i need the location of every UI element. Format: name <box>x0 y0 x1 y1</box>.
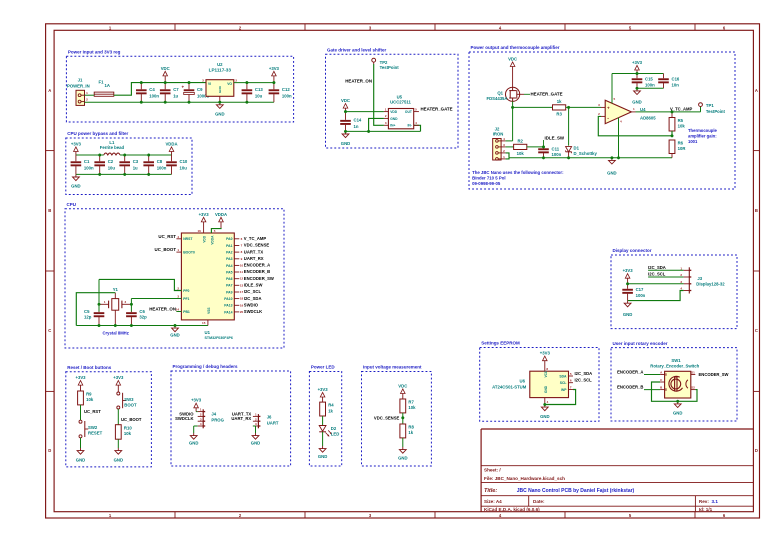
svg-text:GND: GND <box>76 457 85 462</box>
U1 pin 14 PB1 <box>149 307 190 314</box>
wire R8 to ground <box>402 438 404 447</box>
inductor L1 Ferrite bead <box>100 140 125 155</box>
svg-text:10u: 10u <box>108 166 116 171</box>
svg-text:1n: 1n <box>354 124 359 129</box>
svg-text:HEATER_GATE: HEATER_GATE <box>421 107 453 112</box>
svg-text:ENCODER_A: ENCODER_A <box>244 263 270 268</box>
svg-text:HEATER_ON: HEATER_ON <box>345 79 372 84</box>
wire bypass bottom rail <box>76 173 172 175</box>
svg-text:Settings EEPROM: Settings EEPROM <box>481 341 520 346</box>
svg-text:I2C_SCL: I2C_SCL <box>575 378 593 383</box>
wire SW3 to R10 <box>117 409 119 425</box>
svg-text:PA5: PA5 <box>226 270 232 274</box>
svg-text:VI: VI <box>208 82 211 86</box>
power symbol VDC <box>161 66 170 83</box>
svg-text:10u: 10u <box>255 94 263 99</box>
svg-text:1k: 1k <box>408 430 413 435</box>
svg-text:VDC_SENSE: VDC_SENSE <box>374 415 400 420</box>
resistor R8 1k <box>400 424 415 438</box>
svg-text:IDLE_SW: IDLE_SW <box>545 135 565 140</box>
ground symbol divider <box>398 447 407 460</box>
svg-text:PA3: PA3 <box>226 257 232 261</box>
rotary encoder SW1 body <box>660 371 695 399</box>
ground symbol led <box>318 446 327 459</box>
capacitor C6 32p <box>126 309 147 325</box>
svg-text:PA14: PA14 <box>224 310 232 314</box>
block CPU <box>65 202 284 348</box>
svg-text:10k: 10k <box>517 151 525 156</box>
svg-text:C8: C8 <box>157 159 163 164</box>
junction dots CPU <box>98 303 177 327</box>
transistor Q1 FDS4435A <box>486 87 524 101</box>
wire amp caps bottom <box>637 87 664 89</box>
block Input voltage measurement <box>362 365 432 466</box>
svg-text:Ferrite bead: Ferrite bead <box>100 145 125 150</box>
block Power LED <box>309 365 341 466</box>
svg-text:TP1: TP1 <box>706 103 714 108</box>
svg-text:100n: 100n <box>552 152 562 157</box>
power symbol +3V3 reset <box>75 375 86 391</box>
U1 pin 9 PA3 net UART_RX <box>226 256 264 261</box>
svg-text:UC_RST: UC_RST <box>158 234 176 239</box>
svg-text:A: A <box>48 88 51 93</box>
svg-text:3.1: 3.1 <box>712 499 719 504</box>
fuse F1 <box>94 80 114 97</box>
svg-text:CPU: CPU <box>67 202 77 207</box>
svg-text:10k: 10k <box>124 431 132 436</box>
svg-text:GND: GND <box>318 454 327 459</box>
svg-text:SW2: SW2 <box>88 425 98 430</box>
svg-text:ENCODER_B: ENCODER_B <box>617 385 643 390</box>
ground symbol gate driver <box>341 131 350 146</box>
svg-text:C6: C6 <box>139 309 145 314</box>
svg-text:C17: C17 <box>636 287 644 292</box>
U1 pin 3 PF1 <box>176 295 189 301</box>
svg-text:SW1: SW1 <box>671 358 681 363</box>
power symbol +3V3 boot <box>113 375 124 392</box>
U1 pin 20 PA14 net SWDCLK <box>224 309 262 314</box>
svg-text:Id: 1/1: Id: 1/1 <box>699 507 713 512</box>
capacitor C1 100n <box>71 155 94 174</box>
svg-text:B: B <box>755 208 758 213</box>
resistor R3 1k <box>553 99 566 116</box>
wire R2 to sense node <box>527 146 544 148</box>
svg-text:UART_TX: UART_TX <box>244 249 264 254</box>
svg-text:I2C_SDA: I2C_SDA <box>648 265 666 270</box>
net label V_TC_AMP amp <box>670 107 693 112</box>
capacitor C2 10u <box>94 155 115 174</box>
svg-text:R4: R4 <box>328 403 334 408</box>
svg-text:U1: U1 <box>205 330 211 335</box>
block Display connector <box>611 248 737 328</box>
svg-text:32p: 32p <box>139 315 147 320</box>
svg-text:+3V3: +3V3 <box>71 141 82 146</box>
block Programming / debug headers <box>171 364 291 466</box>
net label HEATER_GATE gate <box>524 91 563 96</box>
power symbol +3V3 CPU <box>199 212 210 233</box>
wire VDC to U5 VDD <box>346 111 384 113</box>
wire SW2 to ground <box>80 438 82 448</box>
svg-text:S1: S1 <box>691 371 695 375</box>
svg-text:+3V3: +3V3 <box>269 66 280 71</box>
svg-text:C14: C14 <box>354 118 362 123</box>
net label I2C_SCL display <box>648 272 684 277</box>
gate driver U5 UCC27511 <box>384 95 419 129</box>
svg-text:C16: C16 <box>672 76 680 81</box>
ground symbol bypass <box>71 174 80 188</box>
header J6 UART <box>253 413 279 429</box>
svg-text:SDA: SDA <box>559 374 567 378</box>
svg-text:SW3: SW3 <box>124 397 134 402</box>
svg-text:PF0: PF0 <box>183 289 189 293</box>
wire regulator output rail <box>234 82 274 84</box>
svg-text:GND: GND <box>398 455 407 460</box>
net label I2C_SDA display <box>648 265 684 270</box>
svg-text:STM32F030F4P6: STM32F030F4P6 <box>205 336 233 340</box>
svg-text:B: B <box>48 208 51 213</box>
svg-text:VDC: VDC <box>398 383 407 388</box>
svg-text:C3: C3 <box>133 159 139 164</box>
U1 pin 17 PA9 net I2C_SCL <box>226 289 261 294</box>
LED D2 <box>319 426 339 437</box>
wire crystal case ground left <box>76 293 115 326</box>
svg-text:Power output and thermocouple: Power output and thermocouple amplifier <box>471 45 560 50</box>
wire gate driver ground run <box>346 130 421 132</box>
ground symbol display <box>623 301 632 318</box>
svg-text:R9: R9 <box>86 392 92 397</box>
capacitor C4 100n <box>136 83 159 103</box>
wire R9 to SW2 <box>80 405 82 420</box>
svg-text:PA7: PA7 <box>226 284 232 288</box>
wire divider middle <box>402 413 404 424</box>
svg-text:BOOT0: BOOT0 <box>183 251 195 255</box>
U1 pin 11 PA5 net ENCODER_B <box>226 269 270 274</box>
power symbol +3V3 bypass <box>71 141 82 155</box>
svg-text:R6: R6 <box>678 141 684 146</box>
svg-text:10u: 10u <box>180 166 188 171</box>
note iron connector <box>472 170 564 186</box>
svg-text:C7: C7 <box>173 87 179 92</box>
svg-text:OUT: OUT <box>405 110 412 114</box>
svg-text:100n: 100n <box>282 94 292 99</box>
wire D2 to ground <box>322 432 324 446</box>
resistor R7 10k <box>400 399 416 413</box>
net label ENCODER_A <box>617 369 660 374</box>
svg-text:VO: VO <box>227 82 232 86</box>
net label I2C_SDA eeprom <box>575 371 593 376</box>
svg-text:+3V3: +3V3 <box>632 60 643 65</box>
svg-text:V_TC_AMP: V_TC_AMP <box>244 236 267 241</box>
net label HEATER_GATE output <box>421 107 453 112</box>
net label UC_BOOT <box>121 417 142 422</box>
test point TP2 <box>372 58 399 70</box>
svg-text:ENCODER_A: ENCODER_A <box>617 369 643 374</box>
wire Q1 source to R3 <box>513 106 553 108</box>
resistor R10 10k <box>115 425 132 440</box>
svg-text:SWDIO: SWDIO <box>244 303 259 308</box>
svg-text:D: D <box>755 448 758 453</box>
svg-text:J3: J3 <box>697 276 702 281</box>
svg-text:Rev:: Rev: <box>699 499 709 504</box>
svg-text:U6: U6 <box>520 379 526 384</box>
svg-text:KiCad E.D.A. kicad (6.0.6): KiCad E.D.A. kicad (6.0.6) <box>484 507 540 512</box>
capacitor C13 10u <box>242 83 264 103</box>
capacitor C11 100n <box>538 146 561 158</box>
block User input rotary encoder <box>611 341 737 421</box>
wire crystal node A vertical <box>98 279 100 311</box>
svg-text:GND: GND <box>170 333 179 338</box>
svg-text:S2: S2 <box>691 386 695 390</box>
svg-text:Input voltage measurement: Input voltage measurement <box>363 365 422 370</box>
svg-text:09-0998-99-05: 09-0998-99-05 <box>472 181 501 186</box>
svg-text:HEATER_GATE: HEATER_GATE <box>531 91 563 96</box>
svg-text:VCC: VCC <box>544 370 548 377</box>
svg-text:-: - <box>607 116 609 122</box>
svg-text:UCC27511: UCC27511 <box>390 100 411 105</box>
svg-text:GND: GND <box>623 312 632 317</box>
svg-text:C4: C4 <box>149 87 155 92</box>
wire op-amp output <box>636 111 701 113</box>
capacitor C5 12p <box>84 309 104 325</box>
net label ENCODER_B <box>617 385 660 390</box>
connector J1 POWER_IN <box>67 77 90 105</box>
title block frame <box>481 429 753 512</box>
capacitor C3 1u <box>119 155 138 174</box>
svg-text:Power LED: Power LED <box>311 365 336 370</box>
U1 pin 12 PA6 net ENCODER_SW <box>226 276 274 281</box>
svg-text:Crystal 8MHz: Crystal 8MHz <box>103 331 129 336</box>
svg-text:C15: C15 <box>645 76 653 81</box>
svg-text:AT24CS01-STUM: AT24CS01-STUM <box>492 384 527 389</box>
U1 pin 8 PA2 net UART_TX <box>226 249 263 254</box>
svg-text:AD8605: AD8605 <box>640 115 656 120</box>
resistor R4 1k <box>320 402 335 416</box>
svg-text:GND: GND <box>673 411 682 416</box>
wire R3 to op-amp <box>566 106 601 108</box>
svg-text:Y1: Y1 <box>113 287 119 292</box>
svg-text:GND: GND <box>251 440 260 445</box>
net label HEATER_ON <box>345 79 372 84</box>
svg-text:GND: GND <box>71 184 80 189</box>
block Gate driver and level shifter <box>326 48 459 149</box>
ground symbol below U2 <box>215 102 224 116</box>
svg-text:+3V3: +3V3 <box>540 351 551 356</box>
svg-text:ENCODER_B: ENCODER_B <box>244 269 270 274</box>
junction dot display <box>626 283 629 286</box>
svg-text:IN+: IN+ <box>390 124 395 128</box>
svg-text:C11: C11 <box>552 146 560 151</box>
svg-text:UART_RX: UART_RX <box>231 416 251 421</box>
block Power Input and 3V3 reg <box>66 49 293 122</box>
svg-text:PA0: PA0 <box>226 237 232 241</box>
svg-text:PF1: PF1 <box>183 297 189 301</box>
net label UART_TX header <box>232 411 252 416</box>
svg-text:C: C <box>48 328 51 333</box>
svg-text:U4: U4 <box>640 107 646 112</box>
svg-text:F1: F1 <box>99 80 105 85</box>
crystal pin numbers <box>104 300 127 304</box>
power symbol +3V3 prog header <box>191 398 202 412</box>
svg-text:D1: D1 <box>574 145 580 150</box>
switch SW3 BOOT <box>117 392 137 409</box>
svg-text:PA10: PA10 <box>224 297 232 301</box>
U1 pin 10 PA4 net ENCODER_A <box>226 263 270 268</box>
wire crystal node B vertical <box>130 299 132 312</box>
power symbol +3V3 led <box>318 387 329 402</box>
svg-text:16: 16 <box>197 229 201 233</box>
svg-text:VSS: VSS <box>207 308 211 314</box>
svg-text:10n: 10n <box>672 83 680 88</box>
wire +3V3 to J4 pin1 <box>196 411 198 413</box>
svg-text:Date:: Date: <box>533 499 545 504</box>
svg-text:1u: 1u <box>173 94 178 99</box>
svg-text:User input rotary encoder: User input rotary encoder <box>613 341 668 346</box>
svg-text:File: JBC_Nano_Hardware.kicad_: File: JBC_Nano_Hardware.kicad_sch <box>484 476 565 481</box>
wire J2 pin to R2 <box>506 146 514 148</box>
svg-text:IDLE_SW: IDLE_SW <box>244 283 263 288</box>
power symbol +3V3 eeprom <box>540 351 551 372</box>
svg-text:14: 14 <box>176 308 180 312</box>
power symbol +3V3 amplifier <box>632 60 643 74</box>
svg-text:Title:: Title: <box>484 488 497 494</box>
svg-text:J4: J4 <box>211 412 216 417</box>
svg-text:Display connector: Display connector <box>613 248 652 253</box>
svg-text:PA1: PA1 <box>226 244 232 248</box>
svg-text:1k: 1k <box>557 99 562 104</box>
power symbol +3V3 display <box>623 268 634 284</box>
switch SW2 RESET <box>79 420 103 438</box>
svg-text:PA6: PA6 <box>226 277 232 281</box>
svg-text:PROG: PROG <box>211 418 224 423</box>
svg-text:VDDA: VDDA <box>215 212 227 217</box>
wire crystal ground rail <box>76 325 208 327</box>
svg-text:1001: 1001 <box>688 139 698 144</box>
svg-text:CPU power bypass and filter: CPU power bypass and filter <box>67 131 128 136</box>
ground symbol prog header <box>189 433 198 445</box>
svg-text:GND: GND <box>114 457 123 462</box>
wire R10 to ground <box>117 439 119 448</box>
svg-text:+: + <box>607 105 610 110</box>
svg-text:Q1: Q1 <box>497 91 503 96</box>
block Reset / Boot buttons <box>66 365 152 467</box>
svg-text:C1: C1 <box>84 159 90 164</box>
block Power output and thermocouple amplifier <box>469 45 735 189</box>
svg-text:GND: GND <box>189 440 198 445</box>
svg-text:SWDCLK: SWDCLK <box>175 416 193 421</box>
wire bypass top rail <box>76 154 172 156</box>
ground rail output stage <box>509 157 672 159</box>
net label UART_RX header <box>231 416 251 421</box>
svg-text:SWDCLK: SWDCLK <box>244 309 262 314</box>
svg-text:100n: 100n <box>645 83 655 88</box>
svg-text:TestPoint: TestPoint <box>706 109 726 114</box>
svg-text:A: A <box>755 88 758 93</box>
power symbol VDDA CPU <box>215 212 227 228</box>
svg-text:10k: 10k <box>408 405 416 410</box>
net label UC_RST <box>84 409 101 414</box>
wire J2 ground pins <box>506 153 509 159</box>
wire encoder common to ground <box>652 382 678 401</box>
svg-text:GND: GND <box>390 117 398 121</box>
svg-text:JBC Nano Control PCB by Daniel: JBC Nano Control PCB by Daniel Fajst (rk… <box>517 488 635 494</box>
svg-text:VDDA: VDDA <box>210 235 214 245</box>
svg-text:PA13: PA13 <box>224 304 232 308</box>
svg-text:The JBC Nano uses the followin: The JBC Nano uses the following connecto… <box>472 170 564 175</box>
svg-text:FDS4435A: FDS4435A <box>486 96 507 101</box>
capacitor C9 1000u <box>182 83 210 103</box>
resistor R5 10k feedback <box>669 112 685 131</box>
ground symbol CPU <box>170 326 179 338</box>
svg-text:PA4: PA4 <box>226 264 232 268</box>
svg-text:V_TC_AMP: V_TC_AMP <box>670 107 693 112</box>
svg-text:LP1117-33: LP1117-33 <box>209 67 232 72</box>
svg-text:VDD: VDD <box>390 110 398 114</box>
power symbol VDDA <box>165 141 177 155</box>
svg-text:10k: 10k <box>86 397 94 402</box>
U1 pin 4 NRST <box>158 234 193 241</box>
wire VDDA elbow <box>211 228 221 233</box>
header J4 PROG <box>198 408 225 429</box>
svg-text:IRON: IRON <box>493 131 504 136</box>
junction dot encoder <box>676 400 679 403</box>
svg-text:HEATER_ON: HEATER_ON <box>149 307 176 312</box>
svg-text:GND: GND <box>544 385 548 393</box>
capacitor C10 10u <box>166 155 188 174</box>
U1 pin 19 PA13 net SWDIO <box>224 303 258 308</box>
capacitor C14 1n <box>340 112 362 132</box>
U1 pin 18 PA10 net I2C_SDA <box>224 296 261 301</box>
svg-text:Rotary_Encoder_Switch: Rotary_Encoder_Switch <box>650 363 699 368</box>
svg-text:+3V3: +3V3 <box>113 375 124 380</box>
net label IDLE_SW <box>544 135 565 147</box>
wire PB1 HEATER_ON stub <box>176 311 181 313</box>
capacitor C16 10n amp <box>658 74 680 89</box>
wire TP2 to U5 input <box>374 64 384 125</box>
svg-text:SCL: SCL <box>560 381 567 385</box>
svg-text:D_Schottky: D_Schottky <box>574 151 598 156</box>
svg-text:Reset / Boot buttons: Reset / Boot buttons <box>67 365 111 370</box>
wire J6 pin3 to ground <box>253 426 256 433</box>
net label SWDCLK <box>175 416 193 421</box>
svg-text:1u: 1u <box>133 166 138 171</box>
svg-text:I2C_SDA: I2C_SDA <box>244 296 262 301</box>
svg-text:C: C <box>755 328 758 333</box>
svg-text:C9: C9 <box>197 87 203 92</box>
wire PF0 to crystal node A <box>99 279 181 290</box>
svg-text:+: + <box>182 85 185 90</box>
resistor R9 10k <box>78 391 94 405</box>
svg-text:WP: WP <box>561 388 567 392</box>
svg-text:+3V3: +3V3 <box>199 212 210 217</box>
svg-text:R8: R8 <box>408 425 414 430</box>
svg-text:C2: C2 <box>108 159 114 164</box>
svg-text:J1: J1 <box>78 77 83 82</box>
svg-text:R3: R3 <box>556 111 562 116</box>
svg-text:POWER_IN: POWER_IN <box>67 84 90 89</box>
title block title text <box>484 488 635 494</box>
block CPU power bypass and filter <box>66 131 192 194</box>
junction dots gate driver <box>344 110 370 132</box>
wire U5 IN- loop <box>414 125 421 131</box>
junction dots power input rails <box>140 81 275 103</box>
svg-text:UART_RX: UART_RX <box>244 256 264 261</box>
svg-text:+3V3: +3V3 <box>623 268 634 273</box>
svg-text:GND: GND <box>607 171 616 176</box>
note thermocouple gain <box>688 128 718 144</box>
ground symbol output stage <box>607 158 616 176</box>
svg-text:BOOT: BOOT <box>124 403 137 408</box>
svg-text:PB1: PB1 <box>183 310 190 314</box>
